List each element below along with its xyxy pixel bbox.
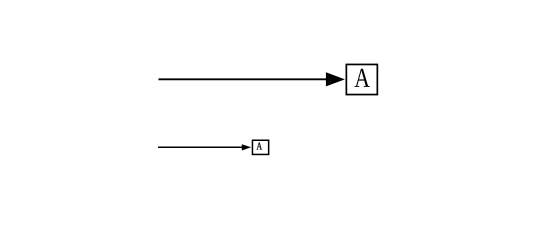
label A: bottom box letter <box>256 142 262 149</box>
wire: bottom arrow shaft <box>158 146 244 148</box>
wire: top arrow shaft <box>159 78 329 80</box>
node A: bottom box <box>252 140 268 154</box>
arrowhead: top arrow <box>326 72 345 86</box>
node A: top box <box>346 64 377 94</box>
label A: top box letter <box>355 69 370 87</box>
arrowhead: bottom arrow <box>242 144 251 150</box>
